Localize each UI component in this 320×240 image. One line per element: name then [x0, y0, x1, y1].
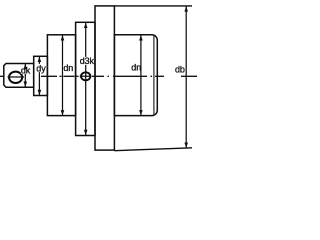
- dimension d3k arrow line: [85, 23, 87, 135]
- label dk: [21, 66, 31, 74]
- svg-text:d3k: d3k: [80, 56, 95, 66]
- cross lines through bolt hole: [80, 71, 92, 82]
- hole ellipse in dk section: [9, 72, 22, 83]
- dimension db arrow line: [185, 6, 187, 147]
- svg-text:dn: dn: [63, 63, 73, 73]
- label d3k: [79, 57, 93, 65]
- extension line top (db): [114, 5, 192, 7]
- svg-text:dn: dn: [131, 63, 141, 73]
- svg-text:db: db: [175, 64, 185, 74]
- flange plate: [95, 6, 114, 150]
- bolt hole circle on flange axis: [81, 72, 90, 80]
- section d3k body: [76, 22, 95, 135]
- dimension dk arrow line: [24, 64, 26, 87]
- dimension dn2 arrow line: [140, 35, 142, 115]
- section dy body: [34, 56, 48, 95]
- centerline (dash-dot axis): [0, 75, 197, 77]
- tangent line of rounded end: [153, 36, 155, 116]
- dimension dy arrow line: [38, 57, 40, 95]
- label db: [175, 64, 184, 72]
- label dn (second): [131, 64, 140, 71]
- label dy: [36, 64, 45, 72]
- label dn (first): [63, 64, 72, 71]
- extension line bottom (db): [114, 148, 192, 151]
- section dn2 body (rounded right end): [114, 35, 157, 116]
- svg-text:dy: dy: [36, 63, 46, 73]
- section dn1 body: [47, 35, 75, 116]
- section dk body (small shaft end, chamfered left corners): [4, 64, 34, 88]
- dimension dn1 arrow line: [62, 35, 64, 115]
- centerline dash through ellipse: [8, 76, 25, 78]
